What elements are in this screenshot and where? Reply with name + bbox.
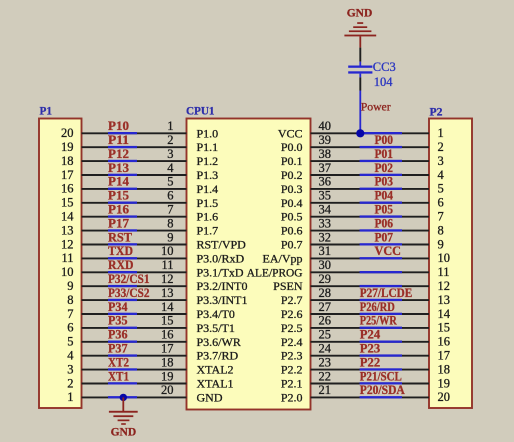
P1 pin number 15 [61,196,74,210]
svg-text:8: 8 [67,293,73,307]
CPU1 pin name P1.4 (pin 5) [197,182,219,196]
CPU1 pin number 38 [319,147,332,161]
wire CPU1 pin 40 to P2-1 [311,132,430,134]
wire CPU1 pin 39 to P2-2 (P00) [311,146,430,148]
svg-text:RST: RST [108,230,133,244]
wire CPU1 pin 37 to P2-4 (P02) [311,174,430,176]
CPU1 pin name P3.2/INT0 (pin 12) [197,279,248,293]
wire P1-7 to CPU1 pin 14 (P34) [82,313,187,315]
CPU1 pin name P2.0 (pin 21) [281,390,303,404]
CPU1 pin number 32 [319,230,332,244]
wire CPU1 pin 36 to P2-5 (P03) [311,188,430,190]
svg-text:19: 19 [161,369,174,383]
net label P35 [108,314,128,328]
wire P1-14 to CPU1 pin 7 (P16) [82,215,187,217]
svg-text:P3.0/RxD: P3.0/RxD [197,251,245,265]
P2 pin number 20 [438,390,451,404]
CPU1 pin number 1 [167,119,173,133]
svg-text:P3.6/WR: P3.6/WR [197,335,241,349]
wire P1-11 to CPU1 pin 10 (TXD) [82,257,187,259]
svg-text:P11: P11 [108,133,129,147]
svg-text:P12: P12 [108,147,129,161]
wire CPU1 pin 28 to P2-13 (P27/LCDE) [311,299,430,301]
P2 pin number 1 [438,126,444,140]
wire P1-15 to CPU1 pin 6 (P15) [82,202,187,204]
svg-text:28: 28 [319,286,332,300]
wire GND to capacitor CC3 [359,48,361,62]
svg-text:P15: P15 [108,189,129,203]
wire CPU1 pin 22 to P2-19 (P21/SCL) [311,382,430,384]
CPU1 pin number 5 [167,175,173,189]
CPU1 pin number 33 [319,216,332,230]
CPU1 pin name P3.1/TxD (pin 11) [197,265,244,279]
P2 pin number 7 [438,210,444,224]
svg-text:5: 5 [438,182,444,196]
CPU1 pin number 29 [319,272,332,286]
CPU1 pin name P2.1 (pin 22) [281,377,303,391]
CPU1 pin number 30 [319,258,332,272]
CPU1 pin name P0.7 (pin 32) [281,238,303,252]
svg-text:8: 8 [167,216,173,230]
wire P1-13 to CPU1 pin 8 (P17) [82,229,187,231]
net label P03 [375,175,394,189]
CPU1 pin number 14 [161,300,174,314]
net label P24 [360,328,381,342]
svg-text:19: 19 [61,140,74,154]
svg-text:40: 40 [319,119,332,133]
P2 pin number 5 [438,182,444,196]
wire P1-2 to CPU1 pin 19 (XT1) [82,382,187,384]
svg-text:33: 33 [319,216,332,230]
svg-text:P37: P37 [108,342,128,356]
svg-text:P0.6: P0.6 [281,224,303,238]
CPU1 pin number 10 [161,244,174,258]
svg-text:P35: P35 [108,314,128,328]
svg-text:14: 14 [438,307,451,321]
svg-text:P2.2: P2.2 [281,363,303,377]
P2 pin number 12 [438,279,451,293]
CPU1 pin name P3.6/WR (pin 16) [197,335,241,349]
net label P26/RD [360,300,395,314]
svg-text:4: 4 [67,349,74,363]
mcu CPU1 body [186,104,311,410]
svg-text:P0.4: P0.4 [281,196,303,210]
net label P22 [360,355,380,369]
svg-text:P1.6: P1.6 [197,210,219,224]
svg-text:CPU1: CPU1 [186,104,215,118]
svg-text:P16: P16 [108,203,129,217]
CPU1 pin number 31 [319,244,332,258]
CPU1 pin name VCC (pin 40) [278,126,303,140]
net label P01 [375,147,394,161]
svg-text:P1.5: P1.5 [197,196,219,210]
CPU1 pin name P3.7/RD (pin 17) [197,349,239,363]
CPU1 pin name EA/Vpp (pin 31) [263,251,303,265]
capacitor CC3 [348,62,372,78]
P1 pin number 2 [67,376,73,390]
P1 pin number 14 [61,210,74,224]
svg-text:30: 30 [319,258,332,272]
svg-text:13: 13 [61,223,74,237]
svg-text:5: 5 [67,335,73,349]
P1 pin number 13 [61,223,74,237]
CPU1 pin number 19 [161,369,174,383]
wire CPU1 pin 30 to P2-11 [311,271,430,273]
CPU1 pin number 13 [161,286,174,300]
CPU1 pin number 11 [161,258,173,272]
svg-text:P26/RD: P26/RD [360,300,395,314]
svg-text:11: 11 [61,251,73,265]
CPU1 pin name P0.1 (pin 38) [281,154,303,168]
svg-text:20: 20 [161,383,174,397]
svg-text:29: 29 [319,272,332,286]
net label Power [361,99,391,113]
svg-text:P20/SDA: P20/SDA [360,383,405,397]
CPU1 pin name P1.1 (pin 2) [197,140,219,154]
svg-text:10: 10 [61,265,74,279]
junction Power node [356,129,364,137]
P1 pin number 7 [67,307,73,321]
svg-text:20: 20 [61,126,74,140]
net label P34 [108,300,128,314]
P2 pin number 3 [438,154,444,168]
wire P1-4 to CPU1 pin 17 (P37) [82,354,187,356]
CPU1 pin name P0.4 (pin 35) [281,196,303,210]
svg-text:P03: P03 [375,175,394,189]
CPU1 pin number 8 [167,216,173,230]
svg-text:XTAL2: XTAL2 [197,363,234,377]
svg-text:TXD: TXD [108,244,133,258]
svg-text:P2.4: P2.4 [281,335,303,349]
svg-text:9: 9 [67,279,73,293]
CPU1 pin number 26 [319,314,332,328]
CPU1 pin name PSEN (pin 29) [273,279,303,293]
svg-text:P0.3: P0.3 [281,182,303,196]
net label P10 [108,119,129,133]
svg-text:11: 11 [438,265,450,279]
P2 pin number 18 [438,362,451,376]
P1 pin number 12 [61,237,74,251]
svg-text:P07: P07 [375,230,394,244]
svg-text:P1.7: P1.7 [197,224,219,238]
P2 pin number 17 [438,349,451,363]
P1 pin number 5 [67,335,73,349]
wire CPU1 pin 25 to P2-16 (P24) [311,341,430,343]
net label P06 [375,216,394,230]
connector P2 [429,105,472,409]
P1 pin number 4 [67,349,74,363]
wire junction to ground symbol [122,397,124,411]
svg-text:P1.0: P1.0 [197,126,219,140]
svg-text:1: 1 [67,390,73,404]
svg-text:2: 2 [438,140,444,154]
CPU1 pin name P0.0 (pin 39) [281,140,303,154]
CPU1 pin name P2.7 (pin 28) [281,293,303,307]
P1 pin number 8 [67,293,73,307]
net label P11 [108,133,129,147]
svg-text:104: 104 [374,75,394,89]
svg-text:P04: P04 [375,189,394,203]
svg-text:12: 12 [161,272,174,286]
svg-text:14: 14 [61,210,74,224]
CPU1 pin number 34 [319,203,332,217]
svg-text:7: 7 [67,307,73,321]
svg-text:18: 18 [438,362,451,376]
svg-text:18: 18 [61,154,74,168]
svg-text:P2.6: P2.6 [281,307,303,321]
svg-text:P2.5: P2.5 [281,321,303,335]
wire P1-3 to CPU1 pin 18 (XT2) [82,368,187,370]
svg-text:31: 31 [319,244,332,258]
net label P23 [360,342,380,356]
svg-text:P1.4: P1.4 [197,182,219,196]
CPU1 pin name P2.3 (pin 24) [281,349,303,363]
P1 pin number 3 [67,362,73,376]
net label P33/CS2 [108,286,150,300]
P2 pin number 13 [438,293,451,307]
svg-text:12: 12 [61,237,74,251]
P2 pin number 8 [438,223,444,237]
svg-text:Power: Power [361,99,391,113]
svg-text:P14: P14 [108,175,130,189]
P1 pin number 6 [67,321,73,335]
svg-text:P2.1: P2.1 [281,377,303,391]
CPU1 pin name ALE/PROG (pin 30) [247,267,303,279]
P2 pin number 4 [438,168,445,182]
svg-text:P1.3: P1.3 [197,168,219,182]
svg-text:P2.3: P2.3 [281,349,303,363]
CPU1 pin name XTAL1 (pin 19) [197,377,234,391]
svg-text:1: 1 [438,126,444,140]
svg-text:21: 21 [319,383,332,397]
svg-text:P17: P17 [108,216,129,230]
wire P1-6 to CPU1 pin 15 (P35) [82,327,187,329]
svg-text:P0.7: P0.7 [281,238,303,252]
CPU1 pin number 36 [319,175,332,189]
value label CC3 [373,60,396,74]
CPU1 pin name P3.0/RxD (pin 10) [197,251,245,265]
svg-text:P23: P23 [360,342,380,356]
P1 pin number 19 [61,140,74,154]
svg-text:39: 39 [319,133,332,147]
wire CPU1 pin 21 to P2-20 (P20/SDA) [311,396,430,398]
svg-text:P0.2: P0.2 [281,168,303,182]
wire capacitor CC3 to Power node [359,77,361,90]
svg-text:P0.0: P0.0 [281,140,303,154]
svg-text:P10: P10 [108,119,129,133]
CPU1 pin number 23 [319,355,332,369]
CPU1 pin name GND (pin 20) [197,390,223,404]
CPU1 pin number 6 [167,189,173,203]
svg-text:5: 5 [167,175,173,189]
wire P1-18 to CPU1 pin 3 (P12) [82,160,187,162]
wire P1-19 to CPU1 pin 2 (P11) [82,146,187,148]
svg-text:P0.1: P0.1 [281,154,303,168]
CPU1 pin name P0.5 (pin 34) [281,210,303,224]
CPU1 pin number 24 [319,342,332,356]
wire CPU1 pin 26 to P2-15 (P25/WR) [311,327,430,329]
svg-text:GND: GND [111,427,137,439]
CPU1 pin number 28 [319,286,332,300]
CPU1 pin name P2.5 (pin 26) [281,321,303,335]
svg-text:P3.2/INT0: P3.2/INT0 [197,279,248,293]
svg-text:XTAL1: XTAL1 [197,377,234,391]
svg-text:P13: P13 [108,161,129,175]
net label P27/LCDE [360,286,413,300]
value label 104 [374,75,394,89]
svg-text:19: 19 [438,376,451,390]
CPU1 pin name RST/VPD (pin 9) [197,238,247,252]
CPU1 pin number 21 [319,383,332,397]
CPU1 pin name P3.3/INT1 (pin 13) [197,293,248,307]
wire P1-20 to CPU1 pin 1 (P10) [82,132,187,134]
net label P07 [375,230,394,244]
svg-text:VCC: VCC [375,244,402,258]
junction GND node on P1-1 wire [120,394,127,401]
CPU1 pin name P1.2 (pin 3) [197,154,219,168]
svg-text:15: 15 [161,314,174,328]
svg-text:23: 23 [319,355,332,369]
CPU1 pin number 4 [167,161,174,175]
svg-text:22: 22 [319,369,332,383]
svg-text:38: 38 [319,147,332,161]
CPU1 pin name P3.4/T0 (pin 14) [197,307,235,321]
svg-text:P21/SCL: P21/SCL [360,369,402,383]
svg-text:32: 32 [319,230,332,244]
svg-text:37: 37 [319,161,332,175]
CPU1 pin number 20 [161,383,174,397]
CPU1 pin number 12 [161,272,174,286]
wire CPU1 pin 38 to P2-3 (P01) [311,160,430,162]
svg-text:P3.7/RD: P3.7/RD [197,349,239,363]
CPU1 pin number 9 [167,230,173,244]
P1 pin number 1 [67,390,73,404]
svg-text:20: 20 [438,390,451,404]
svg-text:P1: P1 [40,104,53,118]
CPU1 pin name P0.6 (pin 33) [281,224,303,238]
svg-text:7: 7 [167,203,173,217]
svg-text:P32/CS1: P32/CS1 [108,272,150,286]
wire CPU1 pin 23 to P2-18 (P22) [311,368,430,370]
CPU1 pin number 25 [319,328,332,342]
ground symbol (bottom GND) [109,411,138,439]
svg-text:P3.5/T1: P3.5/T1 [197,321,235,335]
svg-text:2: 2 [67,376,73,390]
P1 pin number 18 [61,154,74,168]
svg-text:26: 26 [319,314,332,328]
svg-text:25: 25 [319,328,332,342]
svg-text:6: 6 [67,321,73,335]
svg-text:ALE/PROG: ALE/PROG [247,267,303,279]
svg-text:36: 36 [319,175,332,189]
svg-text:CC3: CC3 [373,60,396,74]
P1 pin number 9 [67,279,73,293]
CPU1 pin number 17 [161,342,174,356]
wire CPU1 pin 29 to P2-12 [311,285,430,287]
svg-text:7: 7 [438,210,444,224]
net label P12 [108,147,129,161]
svg-text:XT2: XT2 [108,355,129,369]
svg-text:P02: P02 [375,161,394,175]
svg-text:P2.7: P2.7 [281,293,303,307]
net label P13 [108,161,129,175]
P1 pin number 11 [61,251,73,265]
wire CPU1 pin 27 to P2-14 (P26/RD) [311,313,430,315]
svg-text:XT1: XT1 [108,369,129,383]
P2 pin number 9 [438,237,444,251]
wire CPU1 pin 33 to P2-8 (P06) [311,229,430,231]
CPU1 pin name P2.2 (pin 23) [281,363,303,377]
svg-text:2: 2 [167,133,173,147]
svg-text:9: 9 [167,230,173,244]
svg-text:16: 16 [61,182,74,196]
svg-text:VCC: VCC [278,126,303,140]
CPU1 pin name XTAL2 (pin 18) [197,363,234,377]
net label P14 [108,175,130,189]
svg-text:18: 18 [161,355,174,369]
svg-text:10: 10 [438,251,451,265]
svg-text:P22: P22 [360,355,380,369]
svg-text:11: 11 [161,258,173,272]
svg-text:P01: P01 [375,147,394,161]
svg-text:6: 6 [167,189,173,203]
wire CPU1 pin 34 to P2-7 (P05) [311,215,430,217]
svg-text:P3.4/T0: P3.4/T0 [197,307,235,321]
wire P1-10 to CPU1 pin 11 (RXD) [82,271,187,273]
svg-text:17: 17 [161,342,174,356]
svg-text:3: 3 [167,147,173,161]
P1 pin number 10 [61,265,74,279]
net label P32/CS1 [108,272,150,286]
svg-text:RST/VPD: RST/VPD [197,238,247,252]
svg-text:P33/CS2: P33/CS2 [108,286,150,300]
net label XT2 [108,355,129,369]
CPU1 pin number 40 [319,119,332,133]
svg-text:17: 17 [61,168,74,182]
P2 pin number 11 [438,265,450,279]
net label P04 [375,189,394,203]
svg-text:4: 4 [438,168,445,182]
P2 pin number 15 [438,321,451,335]
CPU1 pin number 35 [319,189,332,203]
svg-text:16: 16 [161,328,174,342]
CPU1 pin name P1.3 (pin 4) [197,168,219,182]
wire Power net (blue) [359,91,361,134]
CPU1 pin name P2.6 (pin 27) [281,307,303,321]
svg-text:P3.1/TxD: P3.1/TxD [197,265,244,279]
P2 pin number 16 [438,335,451,349]
svg-text:13: 13 [438,293,451,307]
svg-text:12: 12 [438,279,451,293]
svg-text:3: 3 [438,154,444,168]
CPU1 pin name P1.5 (pin 6) [197,196,219,210]
P1 pin number 17 [61,168,74,182]
CPU1 pin number 3 [167,147,173,161]
svg-text:PSEN: PSEN [273,279,303,293]
svg-text:P00: P00 [375,133,394,147]
svg-text:P3.3/INT1: P3.3/INT1 [197,293,248,307]
svg-text:27: 27 [319,300,332,314]
net label TXD [108,244,133,258]
CPU1 pin number 16 [161,328,174,342]
svg-text:15: 15 [61,196,74,210]
svg-text:14: 14 [161,300,174,314]
svg-text:13: 13 [161,286,174,300]
CPU1 pin number 27 [319,300,332,314]
svg-text:3: 3 [67,362,73,376]
P1 pin number 16 [61,182,74,196]
svg-text:P36: P36 [108,328,128,342]
